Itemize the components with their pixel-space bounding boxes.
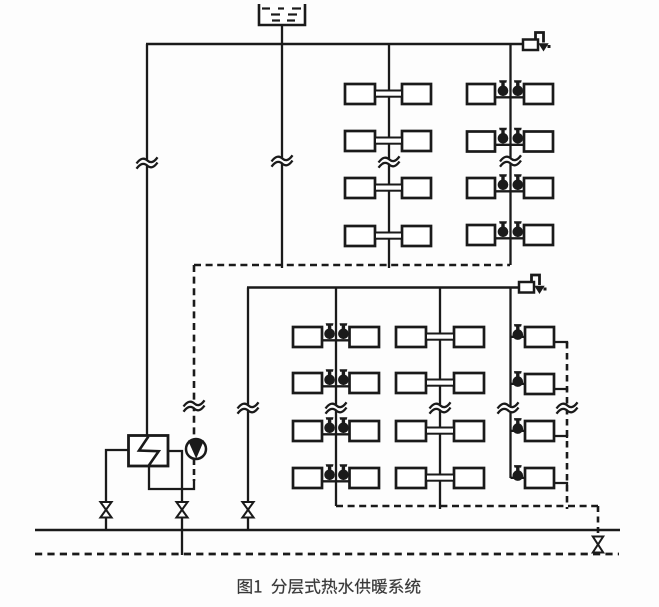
wire bottom supply main <box>35 529 620 532</box>
wire HX left outlet <box>106 450 129 503</box>
valve RC2b <box>338 369 349 385</box>
caption text <box>238 578 420 594</box>
radiator RE1 <box>525 327 554 347</box>
valve GV4 <box>593 537 603 553</box>
radiator RA2R <box>402 131 431 151</box>
radiator RD3R <box>454 421 484 441</box>
pipe break tank riser <box>272 158 293 164</box>
pipe break upper riser B <box>500 158 521 164</box>
wire RE3 inlet <box>511 430 526 432</box>
wire RE1 inlet <box>511 336 526 338</box>
valve RC3a <box>324 417 335 433</box>
wire RE1 outlet <box>554 342 567 344</box>
wire upper return (dashed) <box>194 264 510 267</box>
pipe break return riser F <box>557 405 578 411</box>
radiator RB4R <box>524 225 553 245</box>
valve GV2 <box>176 502 187 518</box>
radiator RB1R <box>524 84 553 104</box>
radiator RA1L <box>345 84 375 104</box>
valve RC4a <box>324 464 335 480</box>
valve RC4b <box>338 464 349 480</box>
pump P1 <box>186 438 206 459</box>
valve GV1 <box>100 502 111 518</box>
radiator RD1R <box>454 327 484 347</box>
wire link RA2 <box>375 138 402 144</box>
pipe break lower riser C <box>326 405 347 411</box>
wire top supply main <box>146 43 524 45</box>
radiator RB4L <box>467 225 495 245</box>
wire link RB2 <box>495 144 524 146</box>
pipe break lower riser E <box>498 405 519 411</box>
wire link RD4 <box>426 475 454 481</box>
air vent V-top <box>523 33 551 52</box>
wire link RC3 <box>322 433 350 435</box>
radiator RC2L <box>293 373 322 393</box>
radiator RC4L <box>293 468 322 488</box>
valve RE4v <box>513 465 524 481</box>
wire link RD2 <box>426 380 454 386</box>
radiator RC1L <box>293 327 322 347</box>
wire lower riser D <box>439 288 441 510</box>
wire link RB3 <box>495 190 524 192</box>
wire RE4 outlet <box>554 483 567 485</box>
wire return drop lower (dashed) <box>193 459 196 481</box>
air vent V-mid <box>519 275 547 294</box>
valve RE1v <box>513 324 524 340</box>
radiator RD3L <box>396 421 426 441</box>
wire lower riser E <box>509 288 511 479</box>
radiator RA4R <box>402 226 431 246</box>
radiator RE3 <box>525 421 554 441</box>
radiator RE4 <box>525 468 554 488</box>
wire link RA1 <box>375 91 402 97</box>
wire RE4 inlet <box>511 477 526 479</box>
radiator RA2L <box>345 131 375 151</box>
pipe break upper riser A <box>379 159 400 165</box>
pipe break left riser <box>137 160 158 166</box>
wire link RB1 <box>495 96 524 98</box>
valve RB2b <box>513 128 524 144</box>
radiator RC4R <box>350 468 380 488</box>
pipe break lower left riser <box>238 405 259 411</box>
valve RB1a <box>498 80 509 96</box>
wire RE3 outlet <box>554 436 567 438</box>
wire link RD1 <box>426 334 454 340</box>
radiator RE2 <box>525 374 554 394</box>
heat exchanger coil symbol <box>139 437 159 466</box>
wire upper riser A <box>388 44 390 268</box>
valve RB3b <box>513 174 524 190</box>
radiator RA4L <box>345 226 375 246</box>
radiator RD2R <box>454 373 484 393</box>
radiator RB3R <box>524 178 553 198</box>
valve RE2v <box>513 371 524 387</box>
radiator RB1L <box>467 84 495 104</box>
wire tank stem <box>281 25 283 45</box>
valve RB3a <box>498 174 509 190</box>
wire RE2 inlet <box>511 383 526 385</box>
wire link RC1 <box>322 339 350 341</box>
radiator RD1L <box>396 327 426 347</box>
wire RE2 outlet <box>554 389 567 391</box>
wire link RB4 <box>495 237 524 239</box>
wire bottom return main (dashed) <box>35 553 619 556</box>
wire lower riser C <box>335 288 337 507</box>
wire link RC2 <box>322 385 350 387</box>
valve RC2a <box>324 369 335 385</box>
wire tank riser <box>281 44 283 268</box>
valve RB2a <box>498 128 509 144</box>
valve RB1b <box>513 80 524 96</box>
valve RC1a <box>324 323 335 339</box>
radiator RD4R <box>454 468 484 488</box>
radiator RD2L <box>396 373 426 393</box>
wire upper riser B <box>509 44 511 265</box>
wire link RC4 <box>322 480 350 482</box>
radiator RD4L <box>396 468 426 488</box>
valve RE3v <box>513 418 524 434</box>
pipe break return drop <box>184 403 205 409</box>
valve GV3 <box>242 502 253 518</box>
radiator RC2R <box>350 373 380 393</box>
radiator RC3R <box>350 421 380 441</box>
wire lower zone header <box>247 286 520 288</box>
valve RC1b <box>338 323 349 339</box>
wire lower return (dashed) <box>336 505 598 508</box>
heat exchanger HX1 <box>129 436 169 467</box>
wire link RD3 <box>426 428 454 434</box>
wire HX bottom loop <box>149 466 194 489</box>
wire lower left riser <box>247 288 249 531</box>
valve RB4b <box>513 221 524 237</box>
radiator RB3L <box>467 178 495 198</box>
wire return drop upper (dashed) <box>193 265 196 439</box>
wire return riser F (dashed) <box>566 342 569 509</box>
valve RC3b <box>338 417 349 433</box>
wire GV1 to main <box>105 518 107 531</box>
radiator RC3L <box>293 421 322 441</box>
radiator RC1R <box>350 327 380 347</box>
expansion tank <box>259 4 305 25</box>
radiator RB2R <box>524 132 553 152</box>
wire left supply riser <box>146 44 148 436</box>
pipe break lower riser D <box>430 405 451 411</box>
wire lower return drop (dashed) <box>597 506 600 536</box>
wire link RA3 <box>375 185 402 191</box>
radiator RA3L <box>345 178 375 198</box>
radiator RB2L <box>467 132 495 152</box>
wire GV2 to return main <box>181 518 183 556</box>
wire link RA4 <box>375 233 402 239</box>
radiator RA3R <box>402 178 431 198</box>
wire HX right outlet <box>168 451 182 503</box>
valve RB4a <box>498 221 509 237</box>
radiator RA1R <box>402 84 431 104</box>
